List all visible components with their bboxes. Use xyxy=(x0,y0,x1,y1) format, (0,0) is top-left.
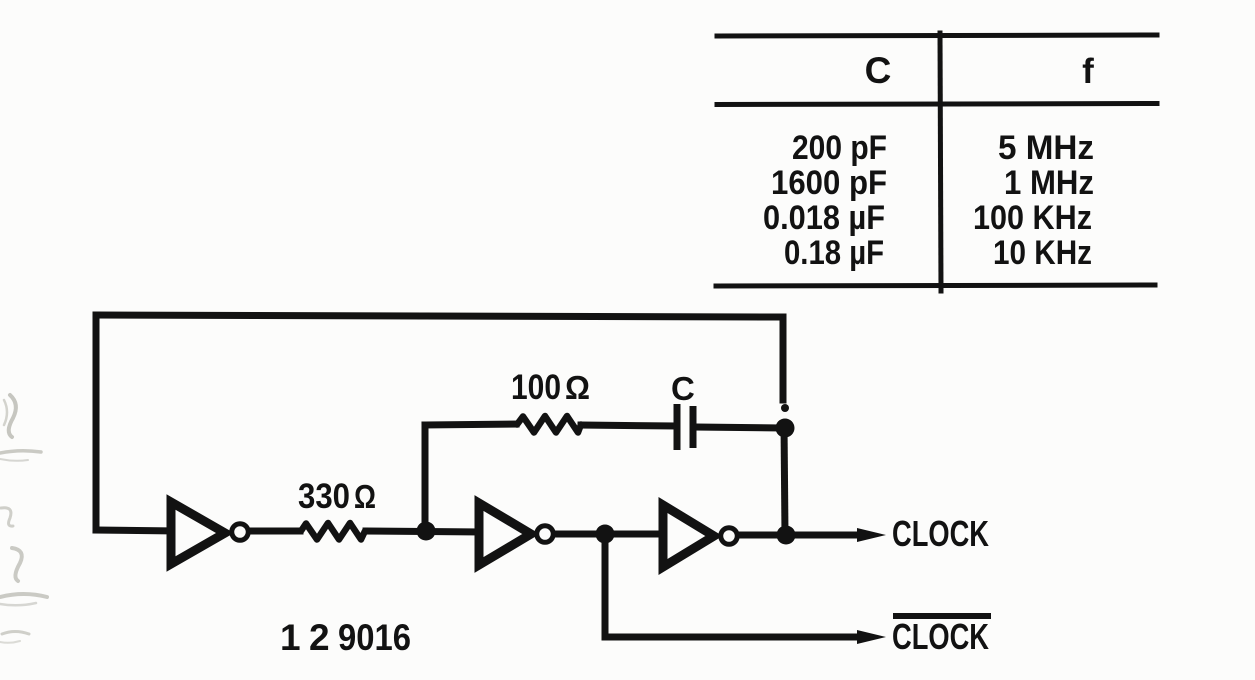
svg-text:0.018 µF: 0.018 µF xyxy=(763,199,885,237)
inverter U1 triangle xyxy=(171,502,225,564)
capacitor C right plate xyxy=(690,406,697,448)
svg-text:100: 100 xyxy=(511,368,561,407)
table header divider rule xyxy=(717,104,1157,105)
capacitor C left plate xyxy=(674,404,681,450)
wire: upper branch horizontal to resistor R2 xyxy=(425,424,516,425)
wire: clock-bar horizontal xyxy=(605,634,858,641)
faint scan smudge: horizontal strokes xyxy=(0,594,47,597)
svg-text:1 MHz: 1 MHz xyxy=(1004,164,1094,202)
wire: inverter 2 output through node D to inverter 3 input xyxy=(554,531,660,538)
svg-text:100 KHz: 100 KHz xyxy=(973,199,1092,237)
wire: input to inverter 1 xyxy=(96,530,175,531)
overline for CLOCK-bar xyxy=(893,613,991,619)
table bottom rule xyxy=(716,285,1155,286)
faint scan smudge: question-mark curve xyxy=(12,548,22,581)
wire: feedback right vertical lower xyxy=(784,424,785,535)
wire: inverter 3 output to CLOCK arrow xyxy=(739,532,858,539)
inverter U3 bubble xyxy=(721,528,738,545)
svg-text:f: f xyxy=(1082,52,1094,91)
svg-text:C: C xyxy=(671,370,695,407)
wire: node A vertical riser xyxy=(422,425,429,531)
arrow head CLOCK-bar xyxy=(857,630,886,644)
svg-text:0.18 µF: 0.18 µF xyxy=(784,234,884,272)
svg-text:C: C xyxy=(865,50,892,91)
resistor 100 ohm zigzag xyxy=(517,416,581,433)
svg-text:9016: 9016 xyxy=(338,617,411,658)
svg-text:CLOCK: CLOCK xyxy=(892,513,989,554)
small stray dot above node B xyxy=(781,404,789,412)
svg-text:Ω: Ω xyxy=(565,369,590,406)
arrow head CLOCK xyxy=(857,528,886,542)
wire: node D vertical drop xyxy=(602,534,609,637)
inverter U2 triangle xyxy=(479,503,531,565)
faint scan smudge: horizontal dashes xyxy=(0,451,41,453)
svg-text:Ω: Ω xyxy=(354,478,376,515)
wire: feedback left vertical xyxy=(93,315,100,530)
resistor 330 ohm zigzag xyxy=(301,523,365,540)
inverter U1 bubble xyxy=(232,524,249,541)
svg-text:10 KHz: 10 KHz xyxy=(993,234,1092,272)
inverter U2 bubble xyxy=(537,526,554,543)
faint scan smudge: small curve xyxy=(1,508,13,526)
svg-text:2: 2 xyxy=(309,617,330,658)
wire: inverter 1 output to resistor xyxy=(248,528,300,535)
wire: feedback right vertical upper xyxy=(780,317,787,400)
junction node A dot xyxy=(417,522,436,541)
faint scan smudge: vertical squiggle left edge xyxy=(9,395,16,437)
svg-text:CLOCK: CLOCK xyxy=(892,616,989,657)
junction node D dot xyxy=(596,525,615,544)
wire: capacitor C to node B xyxy=(696,427,780,428)
table frame top rule xyxy=(717,35,1157,36)
wire: resistor R1 output to node A xyxy=(366,531,480,532)
svg-text:5 MHz: 5 MHz xyxy=(998,129,1094,167)
table column divider xyxy=(940,33,941,291)
inverter U3 triangle xyxy=(663,505,714,567)
svg-text:1: 1 xyxy=(280,617,301,658)
svg-text:1600 pF: 1600 pF xyxy=(771,164,887,202)
junction node B dot (capacitor line) xyxy=(776,419,795,438)
faint scan smudge: short strokes bottom xyxy=(2,632,29,635)
svg-text:200 pF: 200 pF xyxy=(792,129,887,167)
wire: resistor R2 to capacitor C xyxy=(581,425,674,426)
junction node E dot (clock line) xyxy=(777,526,796,545)
wire: feedback top horizontal xyxy=(96,315,783,317)
svg-text:330: 330 xyxy=(298,477,350,516)
